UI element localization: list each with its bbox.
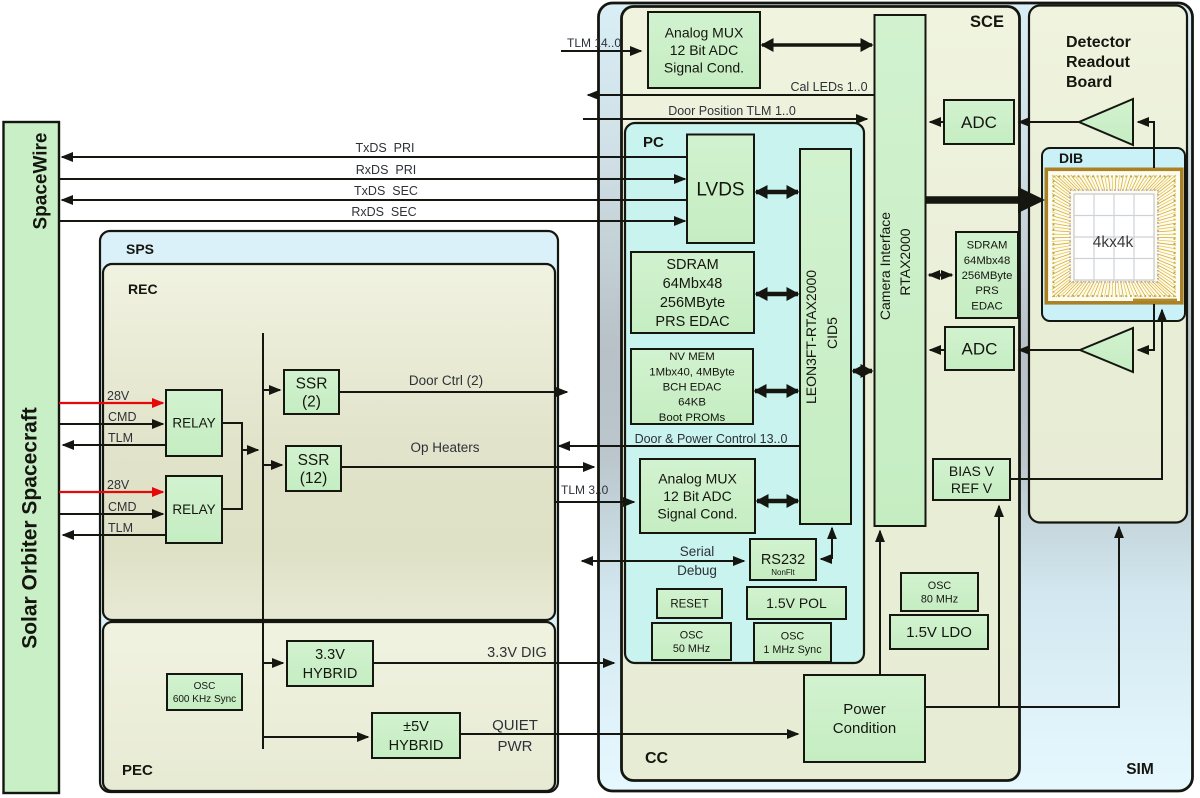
svg-text:PWR: PWR bbox=[498, 738, 533, 755]
svg-text:REC: REC bbox=[128, 281, 158, 297]
Detector Readout Board container bbox=[1029, 6, 1187, 523]
svg-text:28V: 28V bbox=[107, 478, 130, 492]
svg-text:TLM 3..0: TLM 3..0 bbox=[561, 483, 609, 497]
svg-text:SpaceWire: SpaceWire bbox=[31, 133, 52, 230]
wire 28V to RELAY1 (red) bbox=[59, 389, 163, 403]
svg-text:Door Ctrl (2): Door Ctrl (2) bbox=[409, 373, 483, 388]
block OSC 50MHz bbox=[652, 623, 731, 660]
4kx4k detector chip package bbox=[1046, 169, 1182, 302]
svg-text:HYBRID: HYBRID bbox=[389, 738, 444, 754]
wire amp2 to ADC2 bbox=[1019, 349, 1080, 351]
block RS232 NonFlt bbox=[750, 539, 816, 580]
svg-text:1.5V LDO: 1.5V LDO bbox=[906, 624, 972, 641]
wire RS232 to LEON bbox=[831, 531, 833, 559]
bus SDRAM-LEON bbox=[756, 292, 798, 296]
svg-text:1.5V POL: 1.5V POL bbox=[766, 595, 827, 611]
svg-text:Condition: Condition bbox=[833, 720, 896, 737]
svg-text:PC: PC bbox=[643, 134, 664, 151]
block RELAY 2 bbox=[166, 476, 222, 543]
block NV MEM bbox=[631, 349, 753, 424]
label Detector Readout Board bbox=[1066, 34, 1131, 91]
svg-text:Board: Board bbox=[1066, 74, 1112, 91]
svg-text:1 MHz Sync: 1 MHz Sync bbox=[763, 644, 822, 656]
svg-text:BCH EDAC: BCH EDAC bbox=[663, 382, 722, 394]
svg-text:Serial: Serial bbox=[680, 544, 715, 559]
svg-text:DIB: DIB bbox=[1059, 150, 1083, 166]
svg-text:Op Heaters: Op Heaters bbox=[410, 440, 479, 455]
svg-text:(12): (12) bbox=[300, 470, 328, 487]
svg-text:SCE: SCE bbox=[970, 13, 1004, 31]
wire TLM 3..0 bbox=[556, 483, 634, 502]
svg-text:PRS: PRS bbox=[975, 285, 999, 297]
svg-text:64Mbx48: 64Mbx48 bbox=[663, 276, 723, 292]
wire Door Ctrl (2) bbox=[339, 373, 567, 392]
wire RELAY outputs join bbox=[222, 423, 256, 509]
svg-text:64KB: 64KB bbox=[678, 397, 706, 409]
wire 3.3V DIG bbox=[373, 645, 614, 663]
svg-text:Debug: Debug bbox=[677, 563, 717, 578]
svg-text:±5V: ±5V bbox=[403, 719, 429, 735]
svg-text:3.3V DIG: 3.3V DIG bbox=[487, 645, 547, 661]
svg-text:Boot PROMs: Boot PROMs bbox=[659, 412, 726, 424]
block ADC upper bbox=[944, 100, 1014, 144]
block RELAY 1 bbox=[166, 390, 222, 456]
block Camera Interface RTAX2000 bbox=[875, 15, 926, 526]
svg-text:CID5: CID5 bbox=[824, 317, 840, 349]
block LEON3FT-RTAX2000 CID5 bbox=[800, 149, 851, 524]
wire ADC2 to CameraIF bbox=[930, 349, 945, 351]
svg-text:OSC: OSC bbox=[194, 681, 216, 692]
block OSC 600KHz Sync bbox=[167, 674, 242, 710]
block 1.5V POL bbox=[747, 587, 846, 619]
svg-text:SSR: SSR bbox=[296, 375, 328, 392]
bus LEON-CameraIF bbox=[853, 369, 872, 373]
wire Cal LEDs 1..0 bbox=[588, 80, 874, 95]
svg-text:RS232: RS232 bbox=[761, 552, 805, 568]
svg-text:Readout: Readout bbox=[1066, 54, 1131, 71]
svg-text:NV MEM: NV MEM bbox=[669, 351, 715, 363]
svg-text:RESET: RESET bbox=[670, 599, 708, 611]
wire rail to 5V HYBRID bbox=[263, 736, 368, 738]
svg-text:Solar Orbiter Spacecraft: Solar Orbiter Spacecraft bbox=[19, 407, 42, 649]
block 5V HYBRID bbox=[372, 713, 460, 758]
wire CMD to RELAY1 bbox=[59, 410, 163, 424]
svg-text:TLM: TLM bbox=[108, 521, 133, 535]
SIM module container bbox=[599, 3, 1193, 791]
svg-text:12 Bit ADC: 12 Bit ADC bbox=[663, 488, 731, 504]
block ADC lower bbox=[945, 327, 1014, 370]
svg-text:256MByte: 256MByte bbox=[660, 295, 725, 311]
block LVDS bbox=[687, 135, 754, 244]
wire rail to 3.3V HYBRID bbox=[263, 662, 283, 664]
block BIAS V REF V bbox=[933, 459, 1010, 500]
svg-text:12 Bit ADC: 12 Bit ADC bbox=[670, 42, 738, 58]
block 3.3V HYBRID bbox=[287, 641, 373, 686]
wire Serial Debug bbox=[582, 544, 744, 578]
svg-text:REF V: REF V bbox=[951, 480, 993, 496]
PC processor card container bbox=[625, 123, 864, 663]
block SDRAM (PC) bbox=[631, 252, 754, 333]
amplifier upper bbox=[1079, 99, 1133, 145]
svg-text:RELAY: RELAY bbox=[172, 416, 215, 431]
bus CameraIF-SDRAM2 bbox=[929, 274, 952, 277]
svg-text:RxDS PRI: RxDS PRI bbox=[356, 163, 416, 177]
wire BIAS V to chip bbox=[1010, 312, 1162, 479]
block Analog MUX (SCE top) bbox=[648, 12, 760, 88]
svg-text:Door Position TLM 1..0: Door Position TLM 1..0 bbox=[668, 104, 796, 118]
wire ADC1 to CameraIF bbox=[930, 121, 944, 123]
svg-text:OSC: OSC bbox=[680, 630, 704, 642]
svg-text:LEON3FT-RTAX2000: LEON3FT-RTAX2000 bbox=[803, 270, 819, 404]
svg-text:RTAX2000: RTAX2000 bbox=[897, 228, 913, 295]
svg-text:1Mbx40, 4MByte: 1Mbx40, 4MByte bbox=[649, 366, 734, 378]
svg-text:LVDS: LVDS bbox=[696, 179, 744, 200]
svg-text:64Mbx48: 64Mbx48 bbox=[964, 255, 1010, 267]
svg-text:SSR: SSR bbox=[298, 452, 330, 469]
block SSR (2) bbox=[284, 370, 339, 414]
svg-text:CMD: CMD bbox=[108, 410, 136, 424]
wire rail to SSR(2) bbox=[263, 389, 280, 391]
wire TLM from RELAY2 bbox=[63, 521, 166, 535]
svg-text:TLM 14..0: TLM 14..0 bbox=[567, 36, 621, 50]
svg-text:TxDS SEC: TxDS SEC bbox=[354, 184, 418, 198]
svg-text:Cal LEDs 1..0: Cal LEDs 1..0 bbox=[790, 80, 867, 94]
SPS container bbox=[100, 231, 558, 792]
svg-text:256MByte: 256MByte bbox=[962, 270, 1013, 282]
wire TLM 14..0 bbox=[561, 36, 641, 51]
block Power Condition bbox=[804, 675, 925, 762]
svg-text:NonFlt: NonFlt bbox=[771, 568, 795, 577]
bus LVDS-LEON bbox=[756, 190, 798, 194]
wire CMD to RELAY2 bbox=[59, 500, 163, 514]
wire RxDS SEC bbox=[60, 205, 685, 221]
svg-text:Signal Cond.: Signal Cond. bbox=[664, 59, 744, 75]
wire PowerCondition to DRB and BIAS V bbox=[925, 507, 1119, 707]
wire Door Position TLM 1..0 bbox=[583, 104, 867, 119]
svg-text:RELAY: RELAY bbox=[172, 502, 215, 517]
block 1.5V LDO bbox=[890, 615, 988, 649]
svg-text:Door & Power Control 13..0: Door & Power Control 13..0 bbox=[635, 432, 788, 446]
svg-text:TLM: TLM bbox=[108, 431, 133, 445]
svg-text:QUIET: QUIET bbox=[492, 717, 538, 734]
svg-text:ADC: ADC bbox=[961, 113, 997, 132]
svg-text:HYBRID: HYBRID bbox=[303, 666, 358, 682]
svg-text:Camera Interface: Camera Interface bbox=[877, 212, 893, 320]
wire Op Heaters bbox=[341, 440, 594, 467]
svg-text:CC: CC bbox=[645, 750, 669, 767]
bus AnalogMUX-CameraIF bbox=[762, 43, 872, 47]
svg-text:SDRAM: SDRAM bbox=[967, 240, 1008, 252]
svg-text:Analog MUX: Analog MUX bbox=[658, 470, 737, 486]
svg-text:600 KHz Sync: 600 KHz Sync bbox=[173, 694, 236, 705]
wire RxDS PRI bbox=[60, 163, 685, 179]
svg-text:4kx4k: 4kx4k bbox=[1093, 234, 1134, 251]
bus NVMEM-LEON bbox=[755, 389, 798, 393]
svg-text:Signal Cond.: Signal Cond. bbox=[657, 505, 737, 521]
wire power rail vertical bbox=[262, 333, 264, 749]
block SSR (12) bbox=[286, 446, 341, 491]
block OSC 80MHz bbox=[901, 573, 978, 611]
svg-text:3.3V: 3.3V bbox=[315, 647, 345, 663]
svg-text:RxDS SEC: RxDS SEC bbox=[351, 205, 416, 219]
svg-text:(2): (2) bbox=[302, 393, 321, 410]
bus AnalogMUX-LEON bbox=[757, 499, 798, 503]
block Analog MUX (PC) bbox=[640, 459, 755, 533]
PEC container bbox=[103, 622, 555, 791]
wire rail to SSR(12) bbox=[263, 464, 282, 466]
svg-text:SPS: SPS bbox=[126, 241, 154, 257]
wire QUIET PWR bbox=[460, 717, 798, 755]
REC container bbox=[103, 264, 555, 620]
svg-text:PRS EDAC: PRS EDAC bbox=[655, 314, 729, 330]
wire TxDS PRI bbox=[62, 141, 687, 157]
svg-text:CMD: CMD bbox=[108, 500, 136, 514]
svg-text:BIAS V: BIAS V bbox=[949, 463, 995, 479]
svg-text:PEC: PEC bbox=[122, 762, 153, 779]
svg-text:SDRAM: SDRAM bbox=[666, 257, 718, 273]
svg-text:ADC: ADC bbox=[962, 339, 998, 358]
svg-text:SIM: SIM bbox=[1126, 761, 1154, 778]
wire chip to amp1 bbox=[1142, 122, 1154, 168]
svg-text:80 MHz: 80 MHz bbox=[921, 594, 958, 606]
svg-text:TxDS PRI: TxDS PRI bbox=[355, 141, 414, 155]
wire PowerCondition to CameraIF bbox=[879, 532, 881, 675]
svg-text:50 MHz: 50 MHz bbox=[673, 643, 710, 655]
block SDRAM (SCE right) bbox=[956, 232, 1018, 318]
amplifier lower bbox=[1080, 328, 1133, 372]
bus CameraIF to detector (thick) bbox=[926, 196, 1020, 204]
SCE board container bbox=[622, 7, 1020, 781]
wire Door &amp; Power Control 13..0 bbox=[559, 432, 800, 446]
svg-text:Analog MUX: Analog MUX bbox=[665, 24, 744, 40]
svg-text:28V: 28V bbox=[107, 389, 130, 403]
svg-text:OSC: OSC bbox=[928, 580, 952, 592]
svg-text:OSC: OSC bbox=[781, 631, 805, 643]
svg-text:Detector: Detector bbox=[1066, 34, 1131, 51]
DIB container bbox=[1042, 148, 1185, 321]
block RESET bbox=[657, 589, 722, 618]
wire TLM from RELAY1 bbox=[63, 431, 166, 445]
svg-text:EDAC: EDAC bbox=[971, 300, 1002, 312]
svg-text:Power: Power bbox=[843, 701, 886, 718]
wire TxDS SEC bbox=[62, 184, 687, 200]
block OSC 1MHz Sync bbox=[754, 623, 831, 662]
wire chip to amp2 bbox=[1142, 304, 1154, 350]
Solar Orbiter Spacecraft bar bbox=[4, 122, 60, 793]
wire amp1 to ADC1 bbox=[1019, 121, 1079, 123]
wire 28V to RELAY2 (red) bbox=[59, 478, 163, 492]
